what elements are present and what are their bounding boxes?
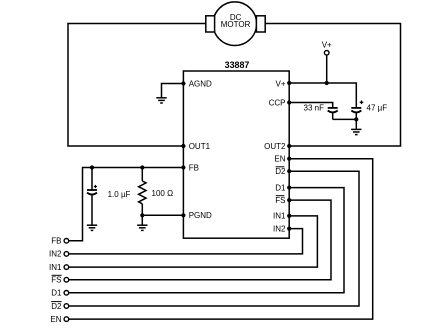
wire R1 bottom to PGND — [142, 214, 183, 216]
pin PGND — [181, 211, 212, 220]
terminal FB — [51, 237, 68, 246]
node R1 bottom / PGND junction — [140, 213, 144, 217]
pin FS (active low) — [275, 196, 291, 205]
capacitor C3 47 uF — [351, 101, 387, 120]
wire to ground — [355, 119, 357, 128]
svg-text:V+: V+ — [275, 79, 285, 88]
wire CCP to C2 — [289, 103, 333, 108]
svg-text:PGND: PGND — [189, 211, 212, 220]
wire IN2 — [69, 229, 303, 254]
svg-text:FB: FB — [189, 163, 199, 172]
terminal EN — [50, 315, 68, 324]
svg-text:MOTOR: MOTOR — [221, 20, 251, 29]
resistor R1 100 ohm — [139, 168, 173, 225]
svg-text:OUT1: OUT1 — [189, 142, 211, 151]
capacitor C2 33 nF — [304, 104, 338, 120]
wire IN1 — [69, 216, 317, 267]
svg-text:1.0 µF: 1.0 µF — [108, 190, 131, 199]
svg-text:D2: D2 — [51, 302, 62, 311]
ground (AGND) — [156, 98, 166, 103]
pin AGND — [181, 79, 212, 88]
svg-text:EN: EN — [50, 315, 61, 324]
ground (caps) — [351, 129, 361, 134]
pin D2 (active low) — [275, 167, 291, 176]
wire FS — [69, 200, 331, 280]
svg-text:IN2: IN2 — [273, 224, 286, 233]
DC motor M1 — [206, 2, 265, 46]
terminal IN1 — [49, 263, 69, 272]
IC U1 33887 — [183, 60, 289, 238]
ground (R1) — [137, 225, 147, 230]
wire AGND to ground — [162, 84, 184, 98]
svg-text:FB: FB — [51, 237, 61, 246]
node cap ground junction — [354, 117, 358, 121]
terminal IN2 — [49, 250, 69, 259]
node V+ junction — [325, 81, 329, 85]
node FB-R1 junction — [140, 165, 144, 169]
wire C2 bottom to C3 bottom — [333, 118, 357, 120]
wire D2 — [69, 171, 359, 306]
pin D1 — [275, 183, 291, 192]
pin FB — [181, 163, 199, 172]
terminal D2 (active low) — [51, 302, 68, 311]
svg-text:100 Ω: 100 Ω — [152, 189, 174, 198]
svg-text:D1: D1 — [51, 289, 62, 298]
wire motor right terminal to OUT2 — [265, 24, 401, 147]
pin OUT1 — [181, 142, 210, 151]
terminal D1 — [51, 289, 68, 298]
svg-text:IN2: IN2 — [49, 250, 62, 259]
capacitor C1 1.0 uF — [87, 168, 131, 225]
svg-text:EN: EN — [274, 155, 285, 164]
svg-text:OUT2: OUT2 — [264, 142, 286, 151]
svg-text:CCP: CCP — [269, 98, 286, 107]
svg-text:33 nF: 33 nF — [304, 104, 325, 113]
node FB-C1 junction — [90, 165, 94, 169]
pin IN2 — [273, 224, 291, 233]
svg-text:47 µF: 47 µF — [367, 104, 388, 113]
svg-text:AGND: AGND — [189, 79, 212, 88]
wire V+ net — [289, 83, 356, 108]
svg-text:D1: D1 — [275, 183, 286, 192]
pin V+ — [275, 79, 291, 88]
svg-text:33887: 33887 — [225, 60, 250, 70]
svg-text:V+: V+ — [322, 41, 332, 50]
pin OUT2 — [264, 142, 291, 151]
wire D1 — [69, 188, 344, 293]
terminal V+ — [322, 41, 332, 83]
svg-text:IN1: IN1 — [273, 212, 286, 221]
wire FB net — [69, 168, 183, 241]
terminal FS (active low) — [51, 275, 68, 284]
wire EN — [69, 159, 373, 319]
wire OUT1 to motor left terminal — [68, 24, 206, 147]
svg-text:FS: FS — [51, 276, 61, 285]
svg-text:IN1: IN1 — [49, 263, 62, 272]
ground (C1) — [87, 225, 97, 230]
pin EN — [274, 155, 291, 164]
pin CCP — [269, 98, 292, 107]
pin IN1 — [273, 212, 291, 221]
svg-text:D2: D2 — [275, 167, 286, 176]
svg-text:FS: FS — [275, 196, 285, 205]
